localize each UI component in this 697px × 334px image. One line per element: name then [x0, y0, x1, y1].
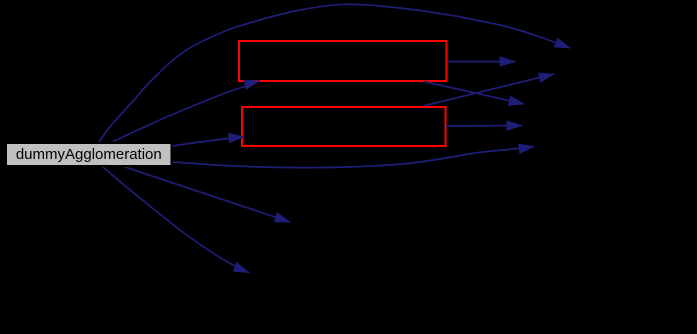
wire edge B: dummyAgglomeration -> red box 1 [113, 81, 260, 142]
wire edge E: dummyAgglomeration -> lower node 1 [125, 167, 290, 222]
wire edge F: dummyAgglomeration -> lower node 2 [103, 167, 249, 273]
svg-text:dummyAgglomeration: dummyAgglomeration [16, 146, 162, 163]
wire edge I: red box 2 -> upper-right node [423, 74, 554, 106]
node dummyAgglomeration [6, 143, 172, 166]
wire edge A: dummyAgglomeration -> top-right node (arc over the top) [99, 4, 570, 142]
wire edge C: dummyAgglomeration -> red box 2 [172, 137, 244, 146]
wire edge G: red box 1 -> right node [448, 61, 515, 63]
node box 1 (red, truncated) [239, 41, 447, 81]
wire edge H: red box 1 -> right node [424, 82, 524, 105]
wire edge J: red box 2 -> right node [446, 125, 522, 128]
wire edge D: dummyAgglomeration -> right node (sagging curve) [173, 147, 534, 168]
node box 2 (red, truncated) [242, 107, 446, 146]
